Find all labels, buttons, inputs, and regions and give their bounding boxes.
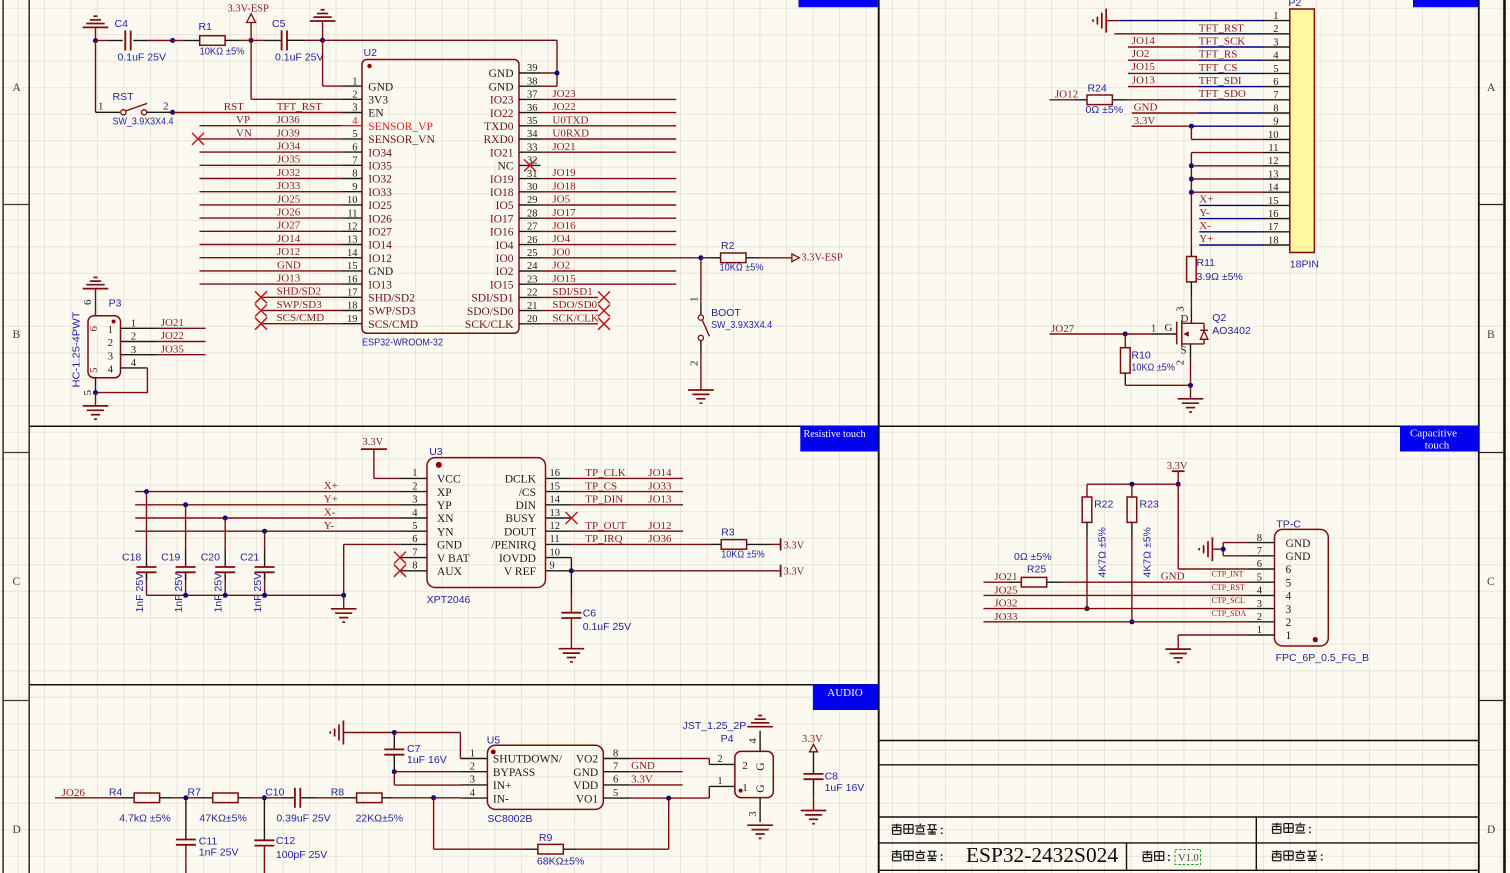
- svg-text:JO14: JO14: [1132, 35, 1156, 47]
- wire: [146, 573, 148, 580]
- svg-text:/PENIRQ: /PENIRQ: [491, 540, 536, 552]
- wire: [264, 531, 266, 550]
- ic U2 ESP32-WROOM-32: [362, 60, 519, 334]
- switch RST SW_3.9X3X4.4: [96, 101, 169, 115]
- wire: [1190, 297, 1192, 310]
- wire: [1125, 384, 1190, 386]
- U2 pin 15 GND: [342, 261, 394, 278]
- wire: [1199, 231, 1263, 233]
- P4 pin 2: [709, 754, 767, 772]
- svg-text:Capacitive: Capacitive: [1410, 428, 1457, 440]
- svg-text:3.3V: 3.3V: [631, 773, 653, 785]
- U3 pin 15 /CS: [519, 481, 572, 498]
- svg-text:X-: X-: [324, 507, 336, 519]
- junction node 3.3V-ESP: [249, 38, 254, 43]
- svg-text:TP_DIN: TP_DIN: [585, 494, 623, 506]
- U2 pin 29 IO5: [496, 195, 541, 212]
- wire: [524, 848, 538, 850]
- svg-text:IO17: IO17: [490, 213, 514, 225]
- wire: [760, 257, 792, 259]
- svg-text:TFT_SCK: TFT_SCK: [1199, 35, 1246, 47]
- wire: [1199, 86, 1264, 88]
- connector P2 18PIN: [1290, 9, 1315, 253]
- wire: [238, 797, 251, 799]
- U2 pin 13 IO14: [342, 235, 393, 252]
- resistor R8: [357, 793, 382, 803]
- svg-text:21: 21: [527, 301, 538, 312]
- svg-text:6: 6: [352, 142, 357, 153]
- wire: [1125, 333, 1151, 335]
- U2 pin 7 IO35: [342, 156, 393, 173]
- svg-text:SW_3.9X3X4.4: SW_3.9X3X4.4: [711, 319, 772, 331]
- svg-text:2: 2: [131, 332, 136, 343]
- P3 pin 2: [108, 332, 158, 350]
- junction C7 top: [392, 730, 397, 735]
- transistor Q2 AO3402: [1151, 307, 1208, 366]
- svg-text:RST: RST: [224, 101, 244, 113]
- P2 pin2 stub: [1263, 33, 1290, 35]
- resistor R11: [1187, 257, 1197, 282]
- svg-text:2: 2: [470, 762, 475, 773]
- node JO row pin 15: [200, 270, 342, 272]
- power port 3.3V-ESP: [228, 4, 269, 41]
- svg-text:10KΩ ±5%: 10KΩ ±5%: [720, 261, 764, 273]
- svg-text:touch: touch: [1425, 439, 1450, 451]
- svg-text:6: 6: [613, 775, 618, 786]
- svg-text:15: 15: [550, 481, 561, 492]
- wire: [323, 39, 557, 41]
- junction node GND rail: [320, 38, 325, 43]
- svg-text:6: 6: [88, 326, 100, 332]
- svg-text:2: 2: [689, 361, 701, 367]
- U3 pin 4 XN: [400, 508, 454, 525]
- svg-text:BYPASS: BYPASS: [493, 767, 535, 779]
- svg-text:14: 14: [550, 495, 561, 506]
- svg-text:4: 4: [1257, 586, 1263, 597]
- resistor R3: [721, 540, 746, 550]
- svg-text:5: 5: [1286, 577, 1292, 589]
- wire: [172, 797, 186, 799]
- svg-text:2: 2: [412, 481, 417, 492]
- wire: [710, 543, 721, 545]
- wire: [146, 550, 148, 567]
- node JO row pin 11: [200, 217, 342, 219]
- node JO0 row: [541, 257, 701, 259]
- svg-text:4: 4: [352, 116, 358, 127]
- U2 pin 14 IO12: [342, 248, 393, 265]
- svg-text:2: 2: [1176, 360, 1187, 365]
- svg-text:68KΩ±5%: 68KΩ±5%: [537, 856, 584, 868]
- svg-text:XP: XP: [437, 487, 452, 499]
- svg-text:2: 2: [163, 101, 169, 113]
- node U0TXD row: [541, 125, 677, 127]
- svg-text:CTP_SCL: CTP_SCL: [1212, 596, 1245, 605]
- svg-text:3: 3: [131, 345, 136, 356]
- node JO row pin 7: [200, 164, 342, 166]
- U5 pin 1 SHUTDOWN/: [461, 748, 563, 765]
- power port 3.3V (VREF): [781, 565, 805, 578]
- power port 3.3V-ESP (R2): [792, 253, 843, 264]
- no-connect cross: [524, 159, 536, 171]
- wire: [1177, 635, 1179, 649]
- ic U3 XPT2046: [427, 458, 546, 588]
- wire: [394, 784, 460, 786]
- capacitor C19: [176, 567, 196, 572]
- svg-text:TFT_RS: TFT_RS: [1199, 49, 1238, 61]
- svg-text:IO35: IO35: [368, 161, 392, 173]
- P3 pin5: [82, 378, 96, 396]
- section header bar (top left, cropped): [799, 0, 878, 7]
- U2 pin 36 IO22: [490, 103, 541, 120]
- wire: [1131, 484, 1133, 497]
- connector P3 HC-1.25-4PWT: [88, 316, 121, 378]
- svg-text:GND: GND: [277, 259, 301, 271]
- svg-text:4: 4: [470, 788, 476, 799]
- wire: [700, 352, 702, 390]
- svg-text:1: 1: [352, 76, 357, 87]
- U2 pin 3 EN: [342, 103, 385, 120]
- svg-text:6: 6: [412, 534, 417, 545]
- node Y-: [135, 530, 400, 532]
- capacitor C5: [282, 30, 287, 50]
- wire: [1106, 20, 1119, 22]
- wire: [323, 85, 342, 87]
- pin1 marker TP-C: [1313, 637, 1318, 642]
- svg-text:6: 6: [82, 299, 94, 305]
- wire: [1114, 33, 1198, 35]
- U3 pin 7 V BAT: [400, 547, 469, 564]
- svg-text:ESP32-2432S024: ESP32-2432S024: [966, 843, 1119, 867]
- ground (P2 pin1): [1093, 9, 1106, 33]
- svg-text:1: 1: [1151, 323, 1156, 334]
- svg-text:4: 4: [108, 364, 114, 376]
- node JO18 row: [541, 191, 677, 193]
- svg-text:GND: GND: [489, 68, 514, 80]
- svg-text:D: D: [13, 824, 21, 836]
- wire: [184, 40, 200, 42]
- svg-text:SDI/SD1: SDI/SD1: [552, 286, 592, 298]
- svg-text:5: 5: [82, 390, 94, 396]
- svg-text:JO22: JO22: [161, 330, 184, 342]
- U3 pin 10 IOVDD: [499, 547, 571, 564]
- svg-text:V BAT: V BAT: [437, 553, 470, 565]
- svg-text:R10: R10: [1131, 349, 1150, 361]
- wire: [157, 354, 205, 356]
- TP-C pin 5 5: [1257, 572, 1292, 589]
- title 文件编号：: [1272, 850, 1323, 861]
- wire: [577, 848, 669, 850]
- svg-text:3: 3: [352, 103, 357, 114]
- TP-C pin1 stub: [1249, 634, 1275, 636]
- svg-text:IO27: IO27: [368, 227, 392, 239]
- svg-text:3.3V: 3.3V: [784, 567, 805, 578]
- wire: [984, 581, 1010, 583]
- U2 pin 32 NC: [498, 156, 541, 173]
- svg-text:IO2: IO2: [496, 266, 514, 278]
- wire: [55, 797, 121, 799]
- wire: [133, 40, 148, 42]
- title 版本:: [1143, 851, 1170, 862]
- svg-text:VN: VN: [236, 127, 252, 139]
- ground: [310, 10, 336, 21]
- P2 stub: [1263, 86, 1290, 88]
- svg-text:B: B: [1487, 329, 1495, 341]
- wire: [1132, 125, 1192, 127]
- junction Y+: [183, 502, 188, 507]
- wire: [570, 596, 572, 612]
- U5 pin 5 VO1: [576, 788, 630, 805]
- node U0RXD row: [541, 138, 677, 140]
- junction node RST-C4: [93, 38, 98, 43]
- wire: [541, 72, 558, 74]
- svg-text:IO25: IO25: [368, 200, 392, 212]
- capacitor C6: [561, 613, 581, 618]
- P3 pin 1: [108, 319, 158, 337]
- svg-text:JO12: JO12: [1055, 89, 1078, 101]
- wire: [95, 41, 97, 113]
- svg-text:FPC_6P_0.5_FG_B: FPC_6P_0.5_FG_B: [1276, 652, 1369, 664]
- svg-text:19: 19: [347, 314, 358, 325]
- TP-C stub: [1249, 594, 1275, 596]
- node JO5 row: [541, 204, 677, 206]
- wire: [394, 771, 460, 773]
- svg-text:IN-: IN-: [493, 793, 509, 805]
- ground (touch caps): [331, 609, 357, 622]
- svg-text:7: 7: [613, 762, 618, 773]
- svg-text:IO19: IO19: [490, 174, 514, 186]
- wire: [322, 40, 324, 86]
- resistor R4: [134, 793, 159, 803]
- U2 pin 1 GND: [342, 76, 394, 93]
- node SDI/SD1 row: [541, 296, 599, 298]
- svg-text:V REF: V REF: [504, 566, 536, 578]
- section header Resistive touch: [800, 426, 878, 452]
- ground (TP-C pin1): [1165, 649, 1191, 662]
- node Y+: [135, 504, 400, 506]
- svg-text:8: 8: [352, 169, 357, 180]
- wire: [392, 797, 433, 799]
- U2 pin 22 SDI/SD1: [471, 288, 540, 305]
- node JO row pin 6: [200, 151, 342, 153]
- svg-text:JO33: JO33: [648, 480, 672, 492]
- wire: [556, 40, 558, 86]
- node JO row pin 12: [200, 230, 342, 232]
- svg-text:38: 38: [527, 76, 538, 87]
- svg-text:13: 13: [550, 508, 561, 519]
- no-connect cross: [192, 133, 204, 145]
- U2 pin 31 IO19: [490, 169, 541, 186]
- node SCK/CLK row: [541, 323, 599, 325]
- svg-text:GND: GND: [1286, 551, 1311, 563]
- U2 pin 38 GND: [489, 76, 541, 93]
- wire: [1190, 282, 1192, 297]
- wire: [571, 570, 780, 572]
- svg-text:C12: C12: [276, 835, 295, 847]
- wire: [1178, 568, 1248, 570]
- svg-text:10KΩ ±5%: 10KΩ ±5%: [1131, 361, 1175, 373]
- wire: [1132, 112, 1199, 114]
- svg-text:R24: R24: [1088, 83, 1107, 95]
- svg-text:JO27: JO27: [277, 220, 301, 232]
- section header AUDIO: [813, 684, 878, 710]
- svg-text:SHUTDOWN/: SHUTDOWN/: [493, 754, 563, 766]
- svg-text:GND: GND: [1134, 102, 1158, 114]
- svg-text:C: C: [13, 576, 21, 588]
- svg-text:CTP_SDA: CTP_SDA: [1212, 609, 1247, 618]
- svg-text:TP_IRQ: TP_IRQ: [585, 533, 622, 545]
- svg-text:JO33: JO33: [277, 180, 301, 192]
- svg-text:R22: R22: [1094, 498, 1113, 510]
- U2 pin 24 IO2: [496, 261, 541, 278]
- wire: [1062, 581, 1249, 583]
- junction node RST net: [170, 38, 175, 43]
- svg-text:JO22: JO22: [552, 101, 575, 113]
- junction VREF: [569, 568, 574, 573]
- svg-text:BUSY: BUSY: [505, 513, 536, 525]
- svg-text:1nF 25V: 1nF 25V: [134, 573, 146, 613]
- P2 pin18 stub: [1263, 244, 1290, 246]
- wire: [224, 580, 226, 595]
- wire: [185, 505, 187, 550]
- U2 pin 23 IO15: [490, 274, 541, 291]
- wire: [1199, 204, 1263, 206]
- TP-C pin 8 GND: [1257, 533, 1311, 550]
- wire: [630, 758, 709, 760]
- wire: [1178, 634, 1248, 636]
- resistor R2: [721, 253, 746, 263]
- wire: [173, 40, 184, 42]
- junction row 14: [1189, 190, 1194, 195]
- wire: [1086, 538, 1088, 609]
- svg-text:6: 6: [1286, 564, 1292, 576]
- TP-C pin 2 2: [1257, 612, 1292, 629]
- svg-text:C6: C6: [583, 608, 597, 620]
- svg-text:SHD/SD2: SHD/SD2: [277, 286, 322, 298]
- wire: [264, 580, 266, 595]
- svg-text:P3: P3: [109, 298, 122, 310]
- svg-text:SCK/CLK: SCK/CLK: [552, 312, 599, 324]
- svg-text:7: 7: [352, 156, 357, 167]
- TP-C pin 3 3: [1257, 599, 1292, 616]
- wire: [1199, 46, 1264, 48]
- TP-C pin5 stub: [1249, 581, 1275, 583]
- svg-text:1: 1: [108, 324, 114, 336]
- svg-text:GND: GND: [631, 760, 655, 772]
- svg-text:JO14: JO14: [277, 233, 301, 245]
- junction R4/C11: [183, 795, 188, 800]
- P4 pin 4 (top): [748, 731, 760, 752]
- wire: [1119, 20, 1263, 22]
- wire: [157, 341, 205, 343]
- junction row 13: [1189, 177, 1194, 182]
- wire: [1191, 152, 1263, 154]
- svg-text:C21: C21: [240, 552, 259, 564]
- wire: [200, 797, 213, 799]
- svg-text:JO17: JO17: [552, 207, 576, 219]
- node JO row pin 16: [200, 283, 342, 285]
- svg-text:SWP/SD3: SWP/SD3: [368, 306, 416, 318]
- svg-text:IO23: IO23: [490, 95, 514, 107]
- svg-text:TFT_SDI: TFT_SDI: [1199, 75, 1242, 87]
- U2 pin 8 IO32: [342, 169, 393, 186]
- wire: [571, 543, 710, 545]
- svg-text:3: 3: [1257, 599, 1262, 610]
- svg-text:U5: U5: [487, 735, 501, 747]
- no-connect cross: [566, 512, 578, 524]
- ground (TP-C 8/7): [1199, 537, 1212, 561]
- TP-C pin 7 GND: [1257, 546, 1311, 563]
- wire: [393, 755, 395, 772]
- U2 pin 5 SENSOR_VN: [342, 129, 436, 146]
- svg-text:A: A: [1487, 82, 1496, 94]
- svg-text:22KΩ±5%: 22KΩ±5%: [356, 813, 403, 825]
- ground (P4 top): [747, 716, 773, 727]
- svg-text:TP_CS: TP_CS: [585, 480, 617, 492]
- junction rail end: [341, 593, 346, 598]
- P2 pin7 stub: [1263, 99, 1290, 101]
- wire: [1190, 309, 1192, 323]
- svg-text:IO15: IO15: [490, 279, 514, 291]
- svg-text:IO32: IO32: [368, 174, 392, 186]
- svg-text:IN+: IN+: [493, 780, 512, 792]
- resistor R24: [1087, 95, 1112, 105]
- svg-text:U2: U2: [364, 47, 378, 59]
- node TP wire: [571, 491, 683, 493]
- svg-text:GND: GND: [489, 81, 514, 93]
- svg-text:JO33: JO33: [994, 611, 1018, 623]
- capacitor C7: [384, 749, 404, 754]
- wire: [1199, 244, 1263, 246]
- svg-text:AUDIO: AUDIO: [827, 687, 862, 699]
- svg-text:JO35: JO35: [277, 154, 301, 166]
- ground (Q2): [1178, 399, 1204, 412]
- svg-text:14: 14: [347, 248, 358, 259]
- wire: [108, 40, 123, 42]
- svg-text:3.9Ω ±5%: 3.9Ω ±5%: [1197, 271, 1243, 283]
- wire: [1191, 125, 1263, 127]
- svg-text:0.1uF 25V: 0.1uF 25V: [275, 52, 323, 64]
- svg-text:C20: C20: [201, 552, 220, 564]
- node JO22 row: [541, 112, 677, 114]
- wire: [1131, 538, 1133, 622]
- wire: [95, 289, 97, 316]
- wire: [1050, 99, 1077, 101]
- svg-text:2: 2: [108, 337, 114, 349]
- title 文件名:: [1272, 823, 1311, 834]
- TP-C pin 1 1: [1257, 625, 1292, 642]
- wire: [225, 39, 240, 41]
- svg-text:SCS/CMD: SCS/CMD: [368, 319, 418, 331]
- svg-text:HC-1.25-4PWT: HC-1.25-4PWT: [71, 311, 83, 388]
- no-connect cross: [394, 552, 406, 564]
- wire: [1087, 483, 1178, 485]
- node JO row pin 8: [200, 178, 342, 180]
- node JO23 row: [541, 98, 677, 100]
- svg-text:JO34: JO34: [277, 141, 301, 153]
- U2 pin 20 SCK/CLK: [465, 314, 541, 331]
- no-connect cross: [598, 318, 610, 330]
- wire: [121, 797, 134, 799]
- U2 pin 4 SENSOR_VP: [342, 116, 433, 133]
- svg-text:Y-: Y-: [324, 520, 335, 532]
- wire: [630, 784, 683, 786]
- svg-text:1nF 25V: 1nF 25V: [252, 573, 264, 613]
- wire: [1131, 522, 1133, 537]
- svg-text:C18: C18: [122, 552, 141, 564]
- svg-text:C4: C4: [115, 18, 129, 30]
- U2 pin 12 IO27: [342, 222, 393, 239]
- junction rail: [262, 593, 267, 598]
